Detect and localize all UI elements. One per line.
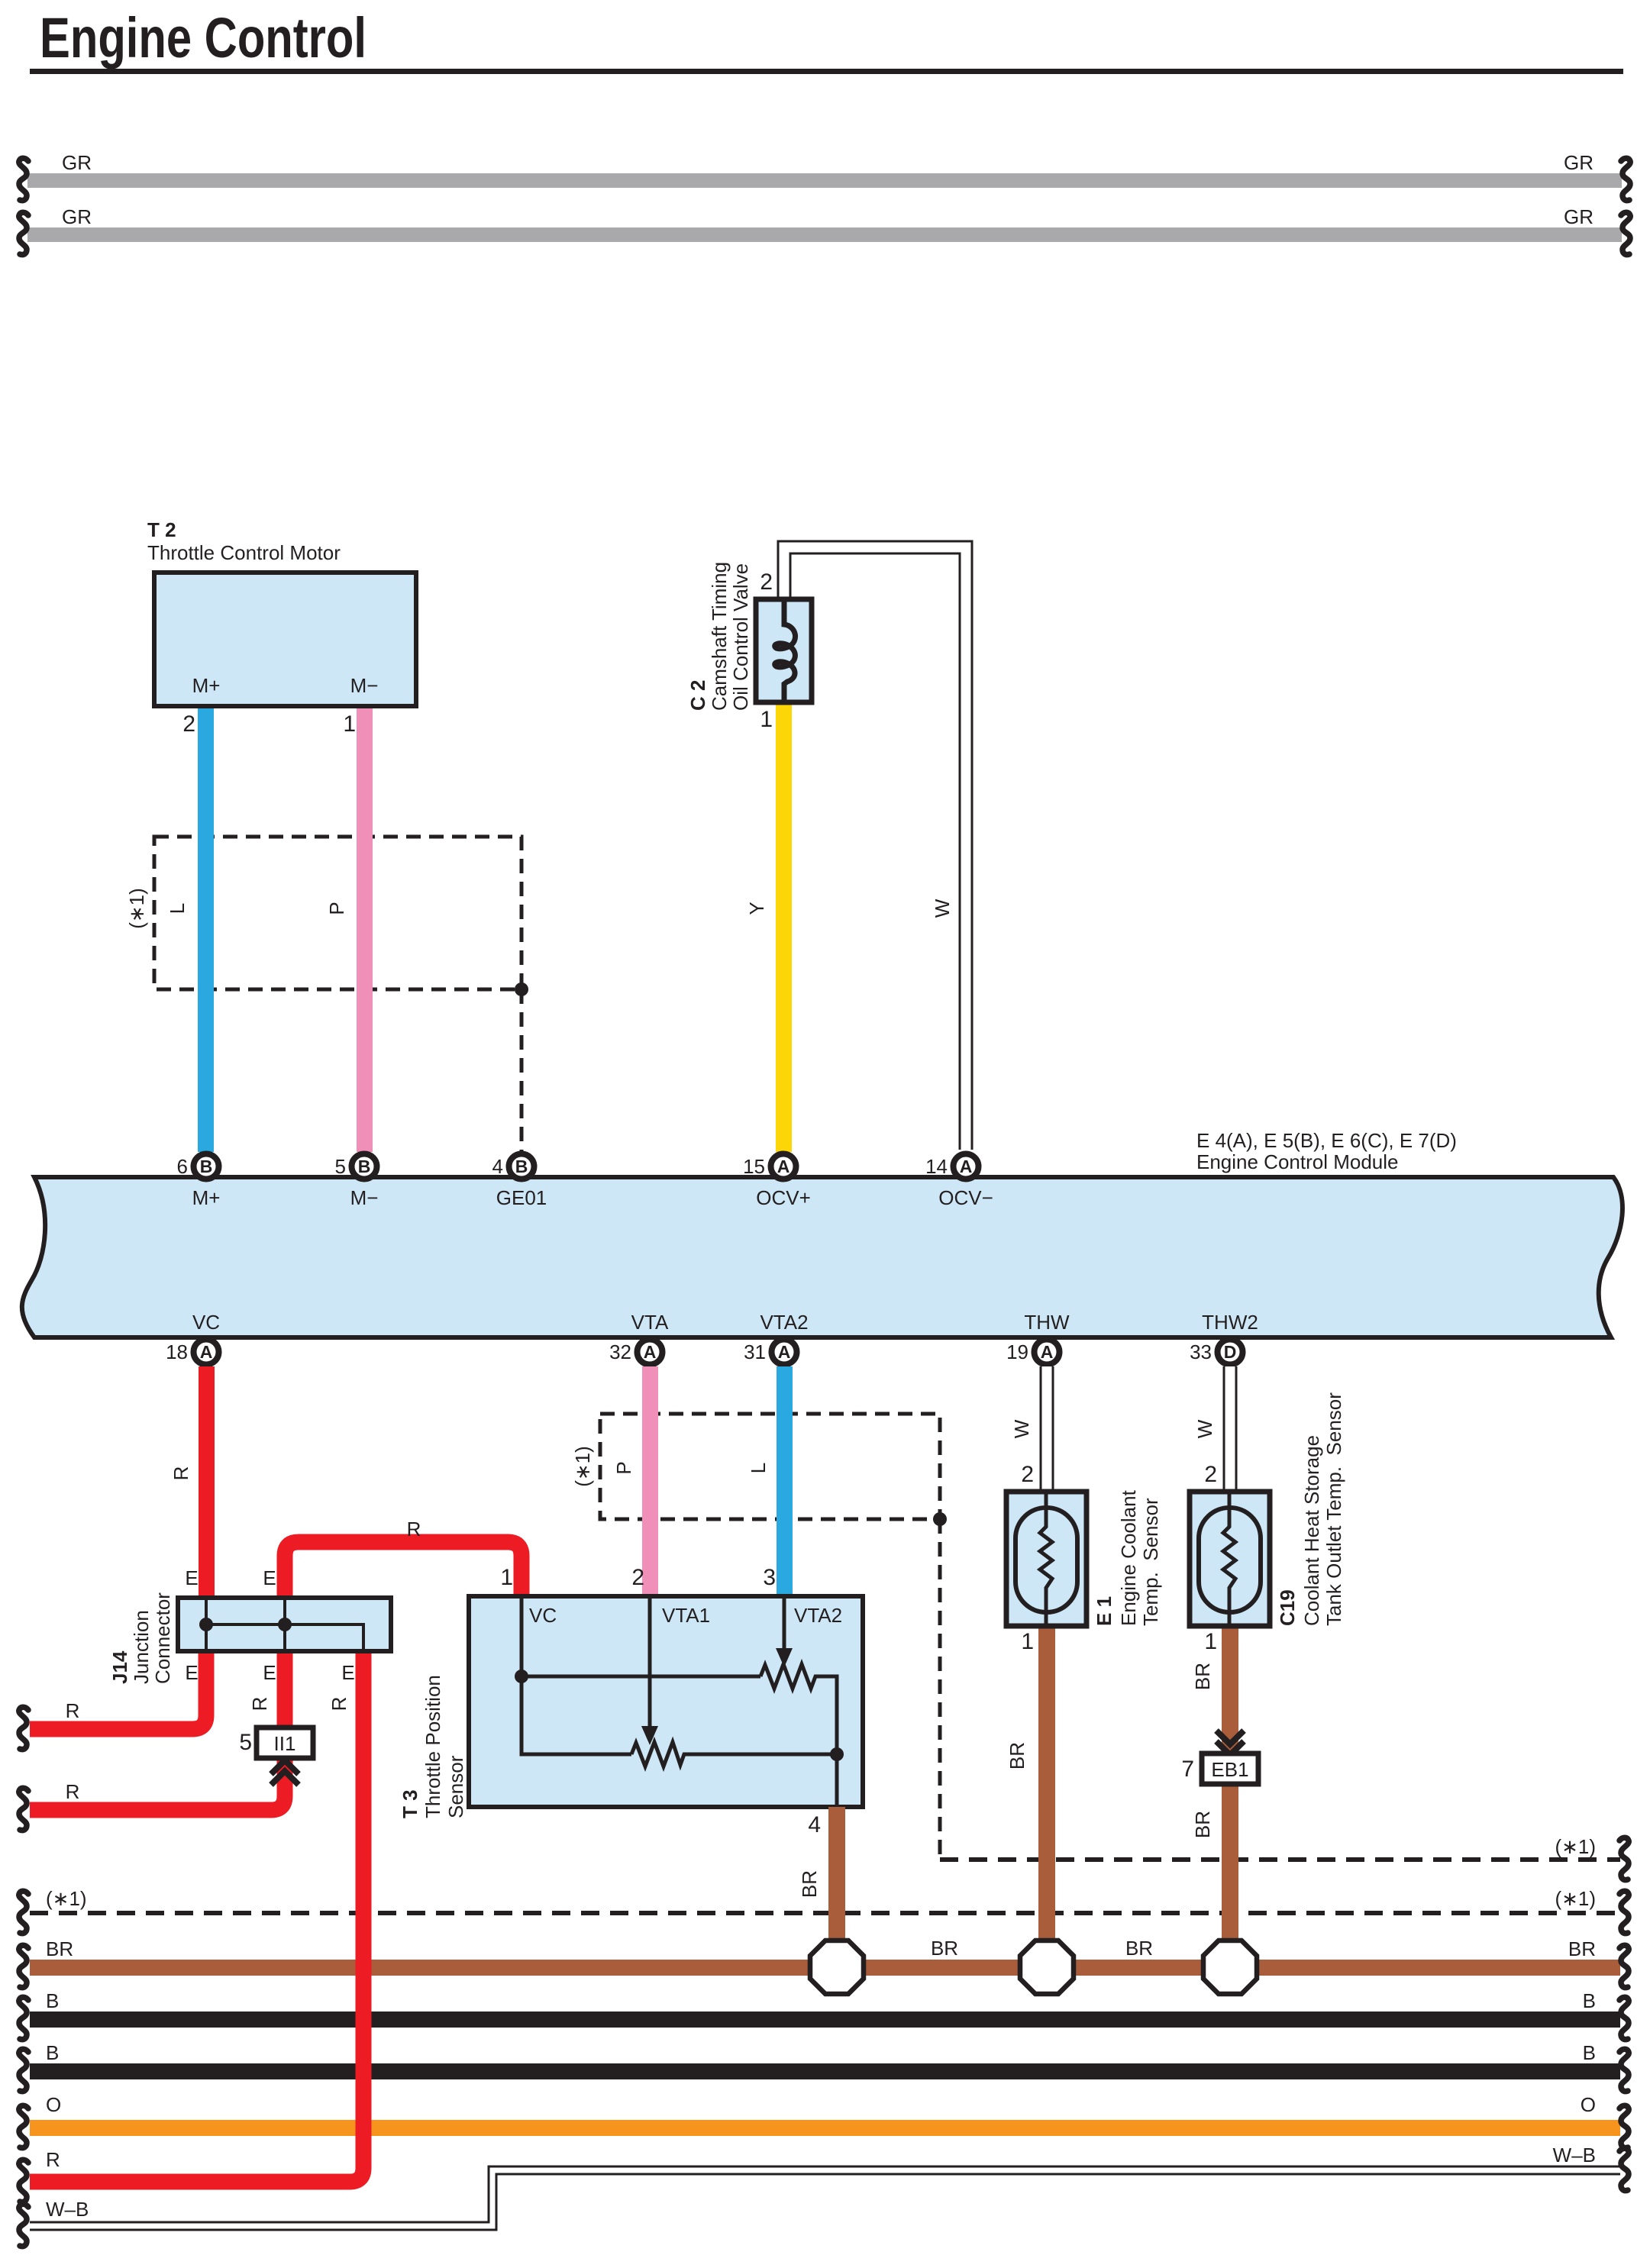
pin 19(A) connector (1006, 1340, 1059, 1365)
svg-text:BR: BR (1191, 1663, 1214, 1690)
wire dashed horizontal to right (*1) (940, 1857, 1620, 1862)
wire R red from 18(A) VC (199, 1366, 215, 1599)
wire BR from E1 (1038, 1626, 1055, 1943)
svg-text:BR: BR (1125, 1937, 1153, 1960)
svg-text:L: L (747, 1463, 770, 1473)
svg-text:C 2: C 2 (686, 680, 709, 711)
svg-text:GR: GR (62, 151, 92, 174)
svg-text:Coolant Heat Storage: Coolant Heat Storage (1300, 1435, 1323, 1626)
connector EB1 with chevrons (1181, 1731, 1258, 1784)
svg-text:(∗1): (∗1) (571, 1446, 594, 1487)
wire W white THW (1010, 1366, 1047, 1492)
svg-text:2: 2 (1021, 1462, 1034, 1487)
wire P pink M- (357, 706, 373, 1152)
svg-text:GR: GR (1564, 205, 1593, 228)
svg-text:P: P (325, 902, 348, 915)
node dashed junction dot T3 (933, 1512, 947, 1526)
wire BR from C19 (1222, 1626, 1238, 1943)
component J14 Junction Connector (108, 1566, 391, 1684)
svg-text:II1: II1 (274, 1732, 296, 1755)
squiggle B bus 1 left (19, 1997, 28, 2039)
svg-text:14: 14 (925, 1155, 948, 1178)
svg-text:E: E (185, 1566, 198, 1589)
svg-text:5: 5 (239, 1730, 252, 1755)
ground octagon 3 (1203, 1941, 1257, 1994)
wire R red J14 down to bottom bus (30, 1651, 363, 2182)
node dot VC (515, 1670, 528, 1683)
svg-text:Tank Outlet Temp. Sensor: Tank Outlet Temp. Sensor (1322, 1392, 1345, 1626)
squiggle GR1 left (19, 158, 28, 200)
svg-text:R: R (328, 1697, 350, 1711)
wire B black bus 2 (30, 2063, 1620, 2079)
title: Engine Control (30, 6, 1623, 74)
svg-text:A: A (778, 1342, 791, 1362)
svg-text:B: B (46, 1989, 59, 2012)
svg-text:(∗1): (∗1) (125, 888, 148, 929)
squiggle B bus 2 left (19, 2049, 28, 2091)
svg-text:Sensor: Sensor (444, 1755, 467, 1818)
svg-text:Engine Control Module: Engine Control Module (1196, 1150, 1399, 1173)
svg-text:T 3: T 3 (399, 1789, 421, 1818)
connector II1 with chevrons (239, 1728, 313, 1785)
pin 14(A) connector (925, 1154, 978, 1179)
squiggle red left 1 (19, 1707, 28, 1749)
svg-text:Engine Coolant: Engine Coolant (1117, 1489, 1140, 1626)
component T2 Throttle Control Motor (147, 518, 416, 737)
svg-text:2: 2 (182, 711, 195, 737)
svg-text:18: 18 (166, 1340, 188, 1363)
svg-text:BR: BR (46, 1937, 73, 1960)
node GE01 dashed junction dot (515, 982, 528, 996)
svg-text:Junction: Junction (130, 1610, 153, 1684)
svg-text:BR: BR (931, 1937, 958, 1960)
squiggle R bus left (19, 2160, 28, 2202)
squiggle GR2 left (19, 212, 28, 254)
svg-text:E 4(A), E 5(B), E 6(C), E 7(D): E 4(A), E 5(B), E 6(C), E 7(D) (1196, 1129, 1457, 1152)
wire W white OCV- (784, 547, 966, 1150)
svg-text:T 2: T 2 (147, 518, 176, 541)
dashed box (*1) T2 area (154, 837, 521, 989)
component C19 Coolant Heat Storage Tank Outlet Temp Sensor (1190, 1392, 1345, 1654)
svg-text:Throttle Control Motor: Throttle Control Motor (147, 541, 341, 564)
svg-text:BR: BR (798, 1870, 821, 1898)
wire GR bus 2 (27, 205, 1622, 242)
wire R red J14 to T3 pin1 (285, 1542, 521, 1599)
svg-text:W: W (931, 898, 954, 918)
squiggle W-B bus right (1619, 2148, 1629, 2190)
svg-text:OCV−: OCV− (938, 1186, 993, 1209)
squiggle B bus 2 right (1619, 2049, 1629, 2091)
svg-text:6: 6 (177, 1155, 188, 1178)
svg-text:M−: M− (350, 674, 379, 697)
svg-text:M+: M+ (192, 674, 221, 697)
svg-text:M−: M− (350, 1186, 379, 1209)
svg-text:E: E (185, 1661, 198, 1684)
svg-text:B: B (1583, 2041, 1596, 2064)
squiggle B bus 1 right (1619, 1997, 1629, 2039)
wire W white THW2 (1193, 1366, 1230, 1492)
svg-text:VTA2: VTA2 (794, 1604, 842, 1627)
svg-text:VC: VC (192, 1311, 220, 1334)
pin 31(A) connector (744, 1340, 796, 1365)
svg-text:OCV+: OCV+ (756, 1186, 811, 1209)
wire O orange bus (30, 2120, 1620, 2136)
svg-text:2: 2 (631, 1565, 644, 1590)
svg-text:D: D (1224, 1342, 1237, 1362)
squiggle BR bus right (1619, 1945, 1629, 1987)
svg-text:Engine Control: Engine Control (40, 6, 366, 69)
dashed box (*1) T3 area (600, 1414, 940, 1519)
svg-text:W: W (1010, 1419, 1033, 1438)
squiggle GR2 right (1621, 212, 1630, 254)
svg-text:31: 31 (744, 1340, 766, 1363)
svg-text:L: L (166, 903, 189, 914)
svg-text:4: 4 (808, 1812, 821, 1837)
pin 5(B) connector (335, 1154, 377, 1179)
svg-text:BR: BR (1568, 1937, 1596, 1960)
wire GR bus 1 (27, 151, 1622, 188)
squiggle dashed bus left (19, 1891, 28, 1933)
svg-text:1: 1 (1204, 1629, 1217, 1654)
svg-text:1: 1 (760, 707, 773, 732)
svg-text:THW: THW (1024, 1311, 1070, 1334)
svg-text:A: A (960, 1157, 973, 1176)
wiper arrow VTA1 (641, 1726, 658, 1745)
component C2 Camshaft Timing Oil Control Valve (686, 562, 812, 732)
svg-text:33: 33 (1190, 1340, 1212, 1363)
component T3 Throttle Position Sensor (399, 1565, 863, 1818)
svg-text:5: 5 (335, 1155, 346, 1178)
svg-text:B: B (46, 2041, 59, 2064)
svg-text:VTA2: VTA2 (760, 1311, 808, 1334)
svg-text:R: R (407, 1518, 421, 1540)
svg-text:15: 15 (743, 1155, 765, 1178)
wire B black bus 1 (30, 2012, 1620, 2028)
pin 32(A) connector (609, 1340, 662, 1365)
wiper arrow VTA2 (776, 1648, 793, 1667)
svg-text:GR: GR (1564, 151, 1593, 174)
component ECM Engine Control Module band (22, 1129, 1623, 1337)
svg-text:2: 2 (760, 569, 773, 595)
wire R red left 2 to II1 (30, 1651, 285, 1810)
squiggle W-B bus left (19, 2204, 28, 2246)
squiggle dashed bus right (1619, 1891, 1629, 1933)
pin 15(A) connector (743, 1154, 796, 1179)
svg-text:C19: C19 (1276, 1589, 1299, 1626)
pin 18(A) connector (166, 1340, 218, 1365)
svg-text:J14: J14 (108, 1650, 131, 1684)
svg-text:(∗1): (∗1) (1555, 1835, 1596, 1858)
wire W-B white-black bus (30, 2144, 1620, 2226)
wire R red left 1 to J14 (30, 1650, 206, 1729)
wire dashed vertical from T3 box (938, 1519, 942, 1860)
svg-text:R: R (170, 1466, 192, 1481)
svg-text:(∗1): (∗1) (46, 1887, 87, 1910)
svg-text:B: B (515, 1157, 528, 1176)
pin 4(B) connector (492, 1154, 534, 1179)
svg-text:4: 4 (492, 1155, 503, 1178)
svg-text:W: W (1193, 1419, 1216, 1438)
svg-text:19: 19 (1006, 1340, 1028, 1363)
pin 6(B) connector (177, 1154, 219, 1179)
wire BR brown bus (30, 1960, 1620, 1976)
svg-text:Y: Y (745, 902, 768, 915)
svg-text:VTA1: VTA1 (662, 1604, 710, 1627)
T3 inner circuit (521, 1599, 837, 1805)
svg-text:7: 7 (1181, 1757, 1194, 1782)
svg-text:1: 1 (1021, 1629, 1034, 1654)
svg-text:Temp. Sensor: Temp. Sensor (1139, 1498, 1162, 1626)
squiggle GR1 right (1621, 158, 1630, 200)
svg-text:E: E (263, 1661, 276, 1684)
svg-text:E: E (341, 1661, 354, 1684)
wire dashed (*1) bus (30, 1911, 1620, 1915)
svg-text:BR: BR (1006, 1742, 1028, 1770)
svg-text:B: B (1583, 1989, 1596, 2012)
svg-text:1: 1 (500, 1565, 513, 1590)
svg-text:P: P (612, 1461, 635, 1474)
svg-text:(∗1): (∗1) (1555, 1887, 1596, 1910)
wire P pink VTA (642, 1366, 658, 1596)
squiggle red left 2 (19, 1788, 28, 1830)
svg-text:R: R (248, 1697, 271, 1711)
svg-text:EB1: EB1 (1211, 1758, 1248, 1781)
svg-text:2: 2 (1204, 1462, 1217, 1487)
svg-text:A: A (1041, 1342, 1054, 1362)
ground octagon 2 (1020, 1941, 1074, 1994)
svg-text:M+: M+ (192, 1186, 221, 1209)
squiggle BR bus left (19, 1945, 28, 1987)
coil symbol C2 (775, 602, 796, 700)
svg-text:Oil Control Valve: Oil Control Valve (729, 563, 752, 711)
svg-text:VC: VC (529, 1604, 557, 1627)
svg-text:3: 3 (763, 1565, 776, 1590)
svg-text:B: B (358, 1157, 371, 1176)
wire GE01 dashed vertical (520, 989, 524, 1157)
svg-text:THW2: THW2 (1202, 1311, 1258, 1334)
svg-text:W–B: W–B (1553, 2144, 1596, 2166)
svg-text:O: O (1581, 2093, 1596, 2116)
svg-text:E 1: E 1 (1093, 1596, 1116, 1626)
svg-text:B: B (200, 1157, 213, 1176)
svg-text:GR: GR (62, 205, 92, 228)
component E1 Engine Coolant Temp Sensor (1006, 1489, 1162, 1654)
wire L blue VTA2 (777, 1366, 793, 1596)
svg-text:O: O (46, 2093, 61, 2116)
svg-text:1: 1 (343, 711, 356, 737)
wire L blue M+ (198, 706, 214, 1152)
svg-text:A: A (777, 1157, 790, 1176)
squiggle dashed right (1619, 1837, 1629, 1879)
wire Y yellow OCV+ (776, 701, 792, 1152)
squiggle O bus right (1619, 2105, 1629, 2147)
svg-text:BR: BR (1191, 1811, 1214, 1838)
svg-text:A: A (200, 1342, 213, 1362)
svg-text:R: R (66, 1780, 80, 1803)
wire BR from T3 pin 4 (828, 1807, 845, 1943)
svg-text:Camshaft Timing: Camshaft Timing (708, 562, 731, 711)
svg-text:32: 32 (609, 1340, 631, 1363)
svg-text:R: R (66, 1699, 80, 1722)
squiggle O bus left (19, 2105, 28, 2147)
svg-text:W–B: W–B (46, 2198, 89, 2221)
svg-text:A: A (644, 1342, 657, 1362)
svg-text:E: E (263, 1566, 276, 1589)
node dot VTA2 out (830, 1747, 844, 1761)
svg-text:R: R (46, 2148, 60, 2171)
svg-text:VTA: VTA (631, 1311, 669, 1334)
svg-text:Throttle Position: Throttle Position (421, 1675, 444, 1818)
svg-text:Connector: Connector (151, 1592, 174, 1684)
pin 33(D) connector (1190, 1340, 1242, 1365)
ground octagon 1 (810, 1941, 864, 1994)
svg-text:GE01: GE01 (496, 1186, 547, 1209)
